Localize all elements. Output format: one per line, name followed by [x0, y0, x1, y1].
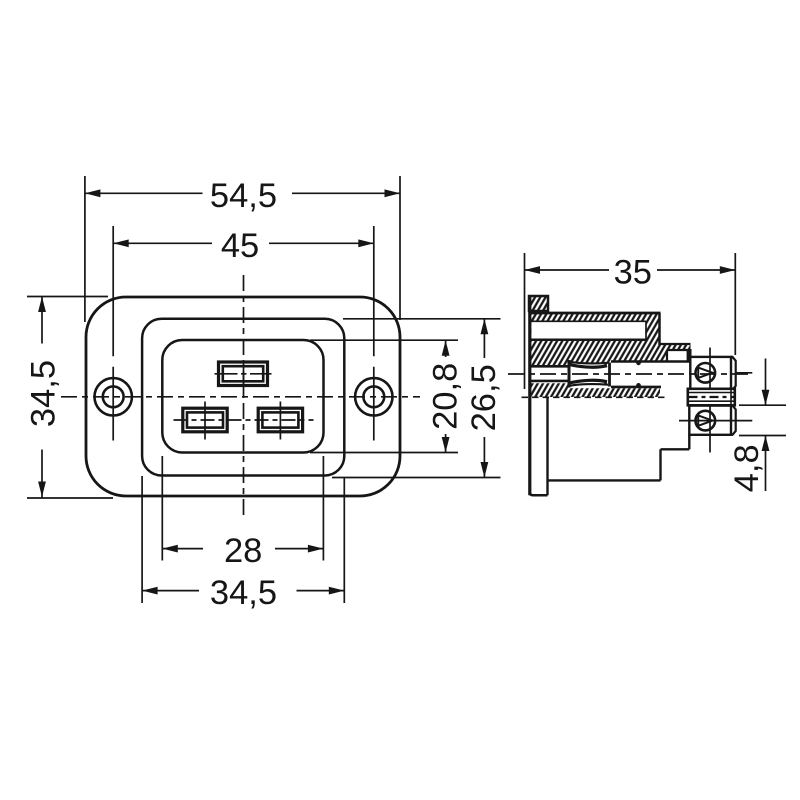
dimension 54,5 extension line right	[399, 176, 401, 320]
crimp contact top wall band	[570, 365, 607, 368]
neutral pin slot (lower right) inner	[262, 412, 298, 427]
side view horizontal centerline	[508, 373, 752, 375]
retaining rib bottom line	[667, 349, 691, 351]
dimension 34,5 left extension line top	[27, 296, 108, 298]
dimension 4,8 reference line bottom	[739, 435, 786, 437]
rear body step horizontal	[661, 448, 690, 450]
earth slot horizontal centerline	[215, 373, 272, 375]
flange right edge	[546, 397, 548, 495]
retaining rib top line	[660, 343, 691, 345]
dimension 34,5 left extension line bottom	[27, 497, 113, 499]
dimension 4,8 upper arrowhead	[762, 390, 770, 406]
svg-text:20,8: 20,8	[427, 363, 465, 430]
crimp contact top outer curve	[570, 362, 608, 364]
svg-text:28: 28	[224, 532, 262, 570]
upper arm inner hatch band line	[531, 320, 646, 322]
dimension 34,5 bottom line	[142, 590, 344, 592]
dimension 20,8 line	[445, 340, 447, 452]
dimension 20,8 extension line top	[310, 339, 458, 341]
earth slot vertical centerline	[243, 366, 245, 392]
lower terminal triangle mark	[698, 415, 712, 425]
dimension 4,8 upper arrow line	[765, 359, 767, 406]
upper pin terminal tip cap	[731, 357, 736, 390]
dimension 54,5 extension line left	[84, 176, 86, 322]
right mounting hole inner circle	[363, 386, 384, 407]
crimp contact top right tick	[604, 363, 607, 367]
socket recess (third rounded rectangle)	[162, 340, 323, 453]
flange bottom edge	[530, 492, 548, 495]
earth pin slot (top) inner	[223, 366, 263, 381]
left mounting hole outer circle	[95, 378, 132, 415]
flat tab centerline dashes	[689, 396, 735, 398]
lower right slot vertical centerline	[279, 402, 281, 440]
dimension 34,5 left arrow top	[38, 297, 46, 313]
lower terminal horizontal crosshair	[679, 420, 752, 422]
lower terminal wire hole circle	[696, 411, 716, 431]
dimension 34,5 left arrow bottom	[38, 482, 46, 498]
dimension 45 extension / hole centerline left	[112, 226, 114, 441]
channel top wall left	[531, 365, 570, 368]
flange left edge	[528, 296, 531, 495]
connector body face (second rounded rectangle)	[142, 319, 344, 476]
left mounting hole inner circle	[103, 386, 124, 407]
svg-text:54,5: 54,5	[210, 177, 277, 215]
dimension 4,8 lower arrowhead	[762, 436, 770, 452]
crimp contact bottom wall band	[570, 380, 607, 383]
svg-text:35: 35	[614, 254, 652, 292]
horizontal centerline front view	[61, 396, 420, 398]
dimension 35 line	[525, 269, 736, 271]
dimension 26,5 extension line bottom	[332, 477, 501, 479]
dimension 28 arrow right	[308, 545, 324, 553]
dimension 26,5 arrow bottom	[481, 462, 489, 478]
lower pin terminal body	[689, 406, 731, 435]
dimension 26,5 arrow top	[481, 319, 489, 335]
right mounting hole outer circle	[355, 378, 392, 415]
dimension 34,5 bottom extension line left	[141, 476, 143, 603]
upper arm right edge	[658, 313, 661, 345]
lower left slot vertical centerline	[204, 402, 206, 440]
svg-text:26,5: 26,5	[465, 364, 503, 431]
dimension 26,5 extension line top	[343, 318, 501, 320]
crimp contact left edge	[568, 360, 571, 388]
dimension 34,5 bottom extension line right	[343, 478, 345, 603]
dimension 45 arrow left	[113, 239, 129, 247]
upper pin terminal body	[690, 357, 731, 390]
dimension 54,5 arrow right	[385, 189, 401, 197]
dimension 20,8 arrow top	[442, 340, 450, 356]
dimension 28 arrow left	[162, 545, 178, 553]
dimension 26,5 line	[483, 319, 485, 478]
dimension 35 arrow left	[525, 266, 541, 274]
dimension 34,5 bottom arrow left	[142, 587, 158, 595]
flat tab inner lines	[689, 389, 735, 406]
dimension 20,8 arrow bottom	[442, 437, 450, 453]
dimension 28 extension line right	[322, 456, 324, 561]
lower pin terminal tip cap	[731, 406, 736, 435]
rib right wall	[687, 349, 692, 362]
dimension 35 extension line right	[734, 253, 736, 355]
lower slots horizontal centerline	[174, 419, 314, 421]
dimension 35 arrow right	[720, 266, 736, 274]
dimension 45 extension / hole centerline right	[373, 226, 375, 441]
hatched lower body section	[531, 383, 660, 397]
detent bump top	[636, 360, 641, 365]
dimension 35 extension line left	[524, 253, 526, 389]
dimension 45 arrow right	[358, 239, 374, 247]
block right edge	[666, 350, 668, 361]
dimension 34,5 bottom arrow right	[329, 587, 345, 595]
svg-text:34,5: 34,5	[210, 574, 277, 612]
connector outer flange outline	[86, 297, 400, 496]
svg-text:4,8: 4,8	[728, 444, 766, 492]
dimension 28 line	[162, 548, 323, 550]
neutral pin slot (lower right) outer	[258, 408, 302, 432]
channel bottom wall left	[531, 380, 570, 383]
vertical centerline front view	[243, 275, 245, 518]
upper terminal vertical crosshair	[709, 348, 711, 399]
upper arm top edge	[529, 312, 661, 315]
hatched flange top block	[529, 296, 548, 311]
flat tab terminal (middle) outline	[688, 389, 735, 406]
dimension 54,5 line	[85, 192, 400, 194]
svg-text:34,5: 34,5	[24, 360, 62, 427]
line pin slot (lower left) inner	[187, 412, 223, 427]
rear body right edge	[659, 449, 661, 480]
hidden edge dashed under lower section	[522, 396, 669, 398]
svg-text:45: 45	[221, 227, 259, 265]
dimension 28 extension line left	[161, 456, 163, 561]
rear body bottom edge	[548, 479, 661, 481]
upper terminal triangle mark	[698, 368, 712, 378]
upper terminal horizontal tick right	[736, 372, 752, 374]
upper block top edge	[530, 339, 647, 342]
dimension 4,8 reference line top	[739, 404, 786, 406]
line pin slot (lower left) outer	[183, 408, 227, 432]
crimp contact bottom right tick	[604, 380, 607, 384]
detent bump bottom	[636, 383, 641, 388]
dimension 45 line	[113, 242, 374, 244]
cavity right wall line	[645, 321, 647, 340]
crimp contact right edge	[608, 363, 611, 387]
channel top wall right	[611, 360, 690, 363]
dimension 34,5 left line	[41, 297, 43, 498]
upper terminal wire hole circle	[696, 363, 716, 383]
earth pin slot (top) outer	[219, 362, 268, 386]
dimension 20,8 extension line bottom	[310, 452, 458, 454]
rear body step vertical	[688, 435, 690, 450]
lower terminal vertical crosshair	[709, 406, 711, 453]
dimension 54,5 arrow left	[85, 189, 101, 197]
channel bottom wall right	[611, 386, 661, 389]
crimp contact bottom outer curve	[570, 384, 608, 386]
dimension 4,8 lower arrow line	[765, 436, 767, 492]
cavity (white) in upper arm	[532, 322, 647, 340]
hatched upper body section	[530, 313, 691, 367]
